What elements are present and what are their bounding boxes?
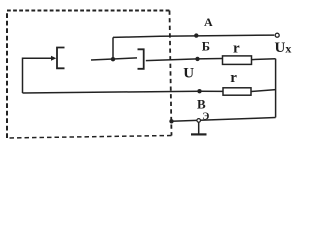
terminal circle E (shield terminal)	[197, 119, 201, 123]
wire: plug P2 lead	[91, 58, 137, 60]
node: junction of vertical with P2 lead	[111, 57, 115, 61]
svg-text:Uх: Uх	[275, 40, 292, 56]
connector plug P1 arrow	[51, 56, 56, 61]
svg-text:Э: Э	[202, 111, 209, 122]
resistor r2	[223, 88, 251, 95]
wire: row A	[113, 35, 274, 37]
node B (contact dot)	[195, 57, 199, 61]
terminal circle Ux	[275, 33, 279, 37]
wire: r1 to right bus	[252, 58, 276, 61]
svg-text:U: U	[183, 65, 194, 81]
connector socket J1 bracket	[57, 48, 65, 69]
svg-text:А: А	[204, 15, 213, 29]
svg-text:r: r	[230, 70, 237, 86]
node A (contact dot)	[194, 33, 198, 37]
wire: vertical up to row A	[112, 37, 114, 59]
svg-text:В: В	[197, 97, 206, 112]
wire: left loop top into plug P1	[23, 58, 52, 93]
node: shield junction dot	[169, 119, 173, 123]
wire: r2 to right bus	[251, 90, 276, 92]
wire: row U bottom	[23, 91, 224, 93]
ground	[198, 122, 200, 134]
wire: row B from J2 to resistor r1	[146, 59, 223, 61]
connector socket J2 bracket	[138, 49, 144, 69]
node U (contact dot on row U)	[197, 89, 201, 93]
wire: bottom row (shield to bus)	[172, 118, 276, 122]
svg-text:r: r	[233, 40, 240, 56]
shield enclosure (dashed box)	[7, 10, 170, 12]
svg-text:Б: Б	[202, 40, 210, 54]
wire: right bus vertical	[275, 59, 277, 118]
resistor r1	[223, 56, 252, 65]
